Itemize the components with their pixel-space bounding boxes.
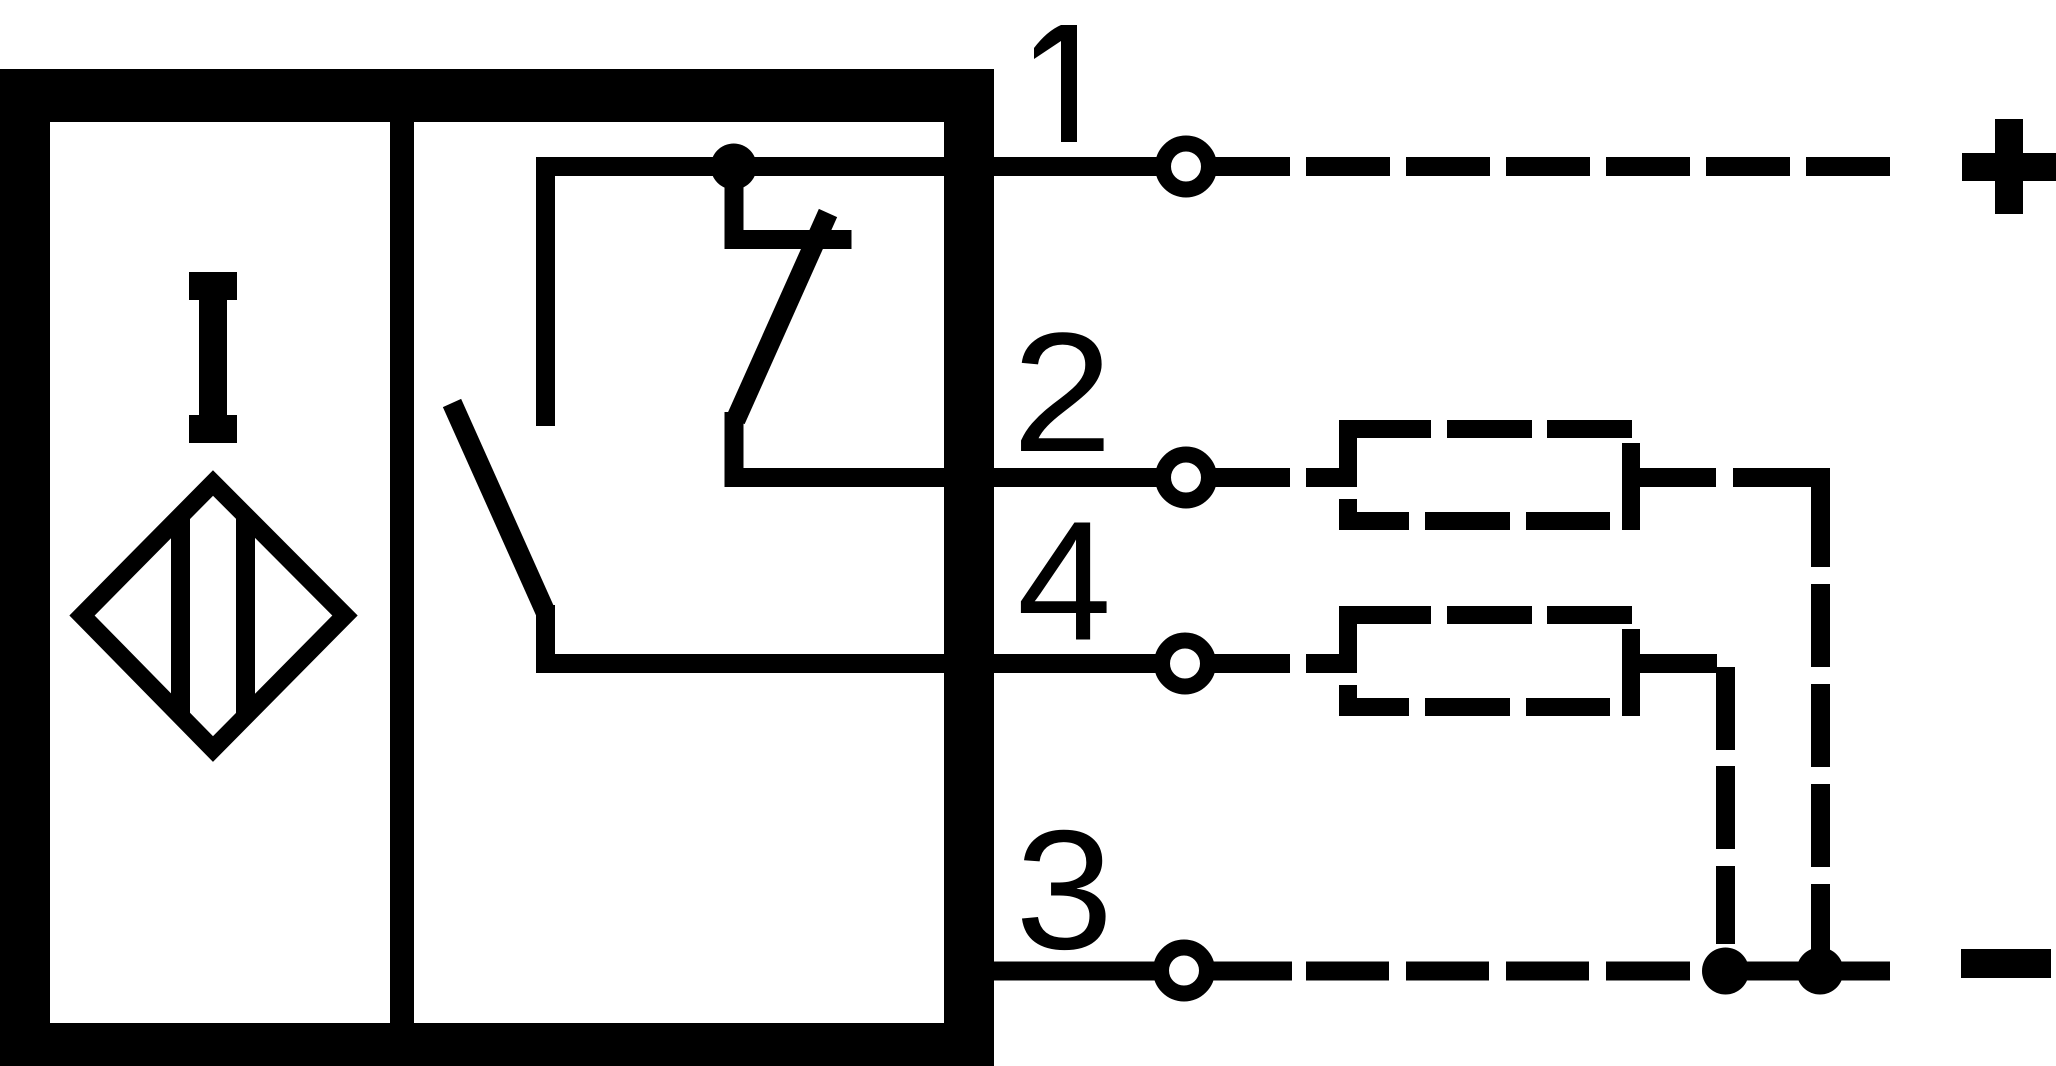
wire pin2 from load to corner (1640, 468, 1716, 487)
inductive sensor letter I (189, 272, 237, 443)
wire pin4 from load to corner (1640, 654, 1717, 673)
wire pin2 dash into load (1306, 468, 1357, 487)
junction dot (node on top wire) (711, 144, 757, 190)
terminal circle pin4 (1162, 641, 1208, 687)
sensor body outline (thick outer box) (0, 69, 994, 1066)
svg-text:3: 3 (1015, 794, 1113, 984)
switch fixed contact vertical (left, from top wire corner) (536, 157, 555, 426)
svg-text:2: 2 (1012, 298, 1113, 488)
wire pin3: solid stub right of terminal (1212, 962, 1292, 981)
internal divider wall (390, 122, 414, 1023)
pin label 2 (1012, 298, 1113, 488)
svg-text:4: 4 (1017, 487, 1112, 677)
dashed drop line from pin4 corner (1716, 667, 1735, 944)
lever bottom stub (536, 605, 555, 673)
stub from junction dot down (725, 166, 744, 249)
load L2 (dashed box on pin4) (1339, 606, 1640, 716)
wire pin2: solid stub right of terminal (1208, 468, 1290, 487)
pin label 1 (1034, 25, 1077, 142)
junction dot pin4 branch on pin3 line (1702, 948, 1749, 995)
Z contact top bar (725, 230, 852, 249)
wire pin2 (from Z contact through border to terminal) (725, 468, 1162, 487)
wire pin1 dashed line to + (1306, 157, 1890, 176)
wire pin4 dash into load (1306, 654, 1357, 673)
wire pin2 corner dash (1733, 468, 1830, 487)
wire pin3 dashed line (1306, 962, 1690, 981)
wire pin3 (from border to terminal) (944, 962, 1162, 981)
plus symbol (supply +) (1962, 119, 2056, 214)
Z contact bottom stub (725, 412, 744, 487)
terminal circle pin3 (1161, 948, 1207, 994)
wire pin4: solid stub right of terminal (1208, 654, 1290, 673)
terminal circle pin1 (1163, 144, 1209, 190)
wire pin1 top (from switch corner through border to terminal) (536, 157, 1162, 176)
Z contact diagonal (736, 213, 829, 420)
dashed drop line from pin2 corner (1811, 487, 1830, 950)
junction dot pin2 branch on pin3 line (1797, 948, 1844, 995)
wire pin4 (from lever through border to terminal) (536, 654, 1162, 673)
switch lever (movable contact) (452, 403, 546, 612)
terminal circle pin2 (1163, 455, 1209, 501)
pin label 3 (1015, 794, 1113, 984)
wire pin1 to supply: solid stub right of terminal (1208, 157, 1290, 176)
wire pin3 solid segment through dots (1725, 962, 1890, 981)
load L1 (dashed box on pin2) (1339, 420, 1640, 530)
minus symbol (supply -) (1961, 949, 2051, 978)
inductive sensor diamond symbol (82, 470, 345, 761)
